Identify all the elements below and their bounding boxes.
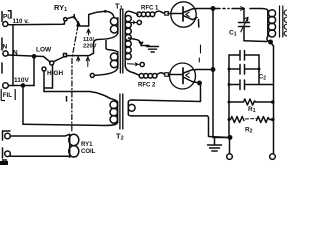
svg-text:R2: R2	[245, 127, 253, 135]
node Q2 emitter junction	[198, 81, 201, 84]
svg-text:HIGH: HIGH	[47, 70, 64, 77]
svg-text:110/: 110/	[83, 37, 94, 43]
choke RFC2	[134, 73, 165, 78]
rail left (collector bus)	[212, 9, 214, 138]
wire Q1 collector to top rail	[196, 8, 213, 10]
transformer T1 core	[120, 9, 122, 73]
wire PL to relay contact	[8, 23, 65, 26]
transformer T2 primary winding	[23, 98, 118, 125]
resistor R1	[229, 99, 272, 105]
svg-text:C2: C2	[259, 74, 267, 82]
terminal FIL	[3, 83, 9, 89]
node coil bottom junction	[269, 40, 272, 43]
terminal bracket bottom left	[3, 131, 11, 160]
tap T1 secondary center to ground	[129, 38, 150, 46]
contact HIGH	[42, 65, 53, 92]
capacitor C2 bank bottom	[229, 80, 273, 90]
svg-text:N: N	[3, 44, 8, 51]
svg-text:RY1: RY1	[81, 142, 93, 148]
node R2 ends	[228, 118, 275, 122]
terminal RY1 coil bottom	[5, 151, 11, 157]
svg-text:110 v.: 110 v.	[13, 18, 30, 25]
node Q2 collector junction	[211, 68, 214, 71]
switch LOW/HIGH blade	[44, 44, 94, 65]
transistor Q2	[168, 63, 197, 89]
transformer T1 primary upper winding	[93, 10, 118, 44]
ground (output)	[208, 138, 222, 152]
rail C2 right	[258, 55, 260, 85]
relay linkage dash-dot	[72, 21, 80, 133]
wire FIL junction down to RY1 coil line	[22, 86, 24, 125]
resistor R2 (two sections, dashed middle)	[229, 117, 272, 123]
wire N junction down to FIL line	[33, 56, 35, 85]
wire rail to output junction	[213, 137, 230, 139]
wire Q2 collector to rail	[196, 69, 214, 71]
choke RFC1	[137, 11, 164, 16]
transformer T2 core	[120, 94, 123, 129]
node junction N	[32, 55, 35, 58]
svg-text:R1: R1	[248, 106, 256, 114]
svg-text:FIL: FIL	[3, 92, 13, 99]
svg-text:N: N	[13, 50, 18, 57]
svg-text:C1: C1	[229, 30, 237, 38]
wire switch line to T2 primary top	[44, 92, 110, 99]
tap T1 secondary lower (n.c.)	[128, 62, 145, 66]
tick below switch line	[66, 97, 68, 102]
node C2 junctions	[228, 68, 261, 87]
wire top dash-dot to tank	[213, 7, 260, 11]
transformer T1 secondary winding	[125, 11, 137, 73]
transistor Q2 base square	[165, 73, 169, 77]
ground (T1 center tap)	[147, 47, 159, 53]
tap T1 secondary upper (n.c.)	[129, 20, 142, 24]
node output junction	[228, 136, 231, 139]
transformer T1 primary lower winding	[90, 41, 118, 78]
svg-text:LOW: LOW	[36, 47, 52, 54]
wire T2 secondary top to Q2 emitter	[133, 83, 201, 102]
svg-text:RFC 2: RFC 2	[138, 83, 156, 89]
capacitor C2 bank middle	[229, 65, 259, 75]
svg-text:RFC 1: RFC 1	[141, 6, 159, 12]
node R1 ends	[228, 100, 275, 104]
wire PL-FIL vertical tie	[12, 26, 14, 86]
terminal N	[3, 51, 8, 56]
tap arrow lower (110/220V pointer)	[86, 57, 89, 67]
coil L1 link winding (cut at edge)	[284, 10, 287, 36]
relay RY1 coil	[10, 134, 79, 157]
terminal output left	[227, 154, 233, 160]
wire C1 bottom to coil bottom	[244, 40, 267, 43]
core L1	[280, 6, 283, 37]
wire FIL	[8, 85, 34, 87]
node junction FIL	[21, 84, 24, 87]
terminal output right	[270, 154, 276, 160]
svg-text:PL: PL	[3, 13, 11, 20]
svg-text:220V: 220V	[83, 43, 97, 49]
coil L1 (tank)	[260, 9, 276, 43]
tap arrow mid (110/220V pointer)	[77, 57, 80, 62]
wire N to switch	[8, 55, 43, 57]
rail right	[271, 42, 274, 154]
transformer T2 secondary winding	[128, 100, 135, 116]
wire output left drop	[229, 138, 231, 154]
node top rail junction	[211, 7, 214, 10]
transistor Q1 base square	[165, 12, 169, 16]
wire Q1 emitter drop (broken)	[199, 20, 201, 63]
terminal RY1 coil top	[5, 133, 11, 139]
smudge bottom-left scan artifact	[0, 161, 8, 165]
rail C2 left	[228, 55, 230, 138]
wire T2 secondary bottom to ground/output	[133, 116, 231, 138]
transistor Q1	[168, 2, 197, 27]
terminal PL	[3, 22, 8, 27]
svg-text:110V: 110V	[14, 77, 29, 84]
bracket FIL	[1, 89, 15, 101]
tap arrow upper (110/220V pointer)	[87, 29, 90, 35]
relay RY1 top contact	[64, 11, 105, 26]
capacitor C2 bank top	[229, 51, 259, 61]
terminal bracket left (plug strip)	[2, 11, 11, 73]
svg-text:COIL: COIL	[81, 149, 96, 155]
capacitor C1 (trimmer)	[239, 9, 250, 41]
